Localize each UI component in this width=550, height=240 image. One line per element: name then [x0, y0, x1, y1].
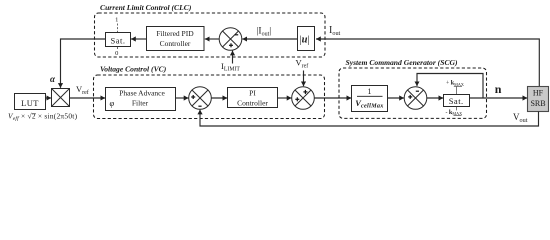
svg-text:ILIMIT: ILIMIT [221, 61, 240, 73]
wire: Vref input to VC summer 2 [303, 71, 305, 87]
svg-text:Filtered PID: Filtered PID [156, 29, 194, 38]
summing junction VC 2 [292, 87, 315, 110]
wire: Sat to HF SRB, net n [470, 97, 528, 99]
svg-text:Controller: Controller [160, 39, 191, 48]
dashed box: Voltage Control (VC) [94, 75, 325, 119]
wire: VC summer1 to PI Controller [211, 97, 227, 99]
svg-text:System Command Generator (SCG): System Command Generator (SCG) [346, 58, 458, 67]
wire: |u| to summer with label |Iout| [242, 38, 298, 40]
dashed box: System Command Generator (SCG) [339, 68, 487, 118]
svg-text:Current Limit Control (CLC): Current Limit Control (CLC) [100, 3, 192, 12]
wire: 1/VcellMax to SCG summer [388, 97, 405, 99]
svg-text:Veff × √2 × sin(2π50t): Veff × √2 × sin(2π50t) [8, 112, 78, 123]
svg-text:- kMAX: - kMAX [446, 109, 463, 116]
wire: SCG summer to Sat [427, 97, 444, 99]
wire: Phase Advance to VC summer 1 [176, 97, 189, 99]
svg-text:Voltage Control (VC): Voltage Control (VC) [100, 65, 167, 74]
wire: PID to Sat [131, 38, 146, 40]
block Sat (CLC saturation) [106, 33, 131, 47]
wire: PI to VC summer 2 [278, 97, 292, 99]
svg-text:0: 0 [115, 50, 118, 57]
wire: ILIMIT input to CLC summer [232, 51, 234, 64]
svg-text:n: n [495, 82, 502, 96]
svg-text:Phase Advance: Phase Advance [119, 89, 165, 98]
svg-text:|u|: |u| [299, 35, 309, 46]
multiplier (X box) [52, 89, 70, 107]
svg-text:SRB: SRB [530, 99, 545, 108]
svg-text:|Iout|: |Iout| [257, 27, 272, 38]
block: PI Controller [228, 88, 278, 108]
wire: anti-windup feedback loop to SCG summer [417, 74, 483, 99]
vinculum over sqrt 2 [32, 113, 36, 115]
svg-text:HF: HF [533, 89, 544, 98]
svg-text:Sat.: Sat. [111, 35, 126, 45]
wire: LUT to multiplier [46, 97, 52, 99]
block: Phase Advance Filter [106, 88, 176, 111]
block: Sat (SCG saturation) [444, 95, 470, 107]
svg-text:Vref: Vref [76, 84, 89, 96]
svg-text:Vout: Vout [513, 112, 528, 124]
svg-text:φ: φ [110, 98, 115, 108]
svg-text:1: 1 [368, 87, 372, 96]
wire: multiplier to Phase Advance Filter, net Vref [70, 97, 106, 99]
wire: Vout feedback from HF SRB bottom to VC summer1 [200, 110, 539, 126]
svg-text:Iout: Iout [329, 25, 341, 37]
svg-text:+ kMAX: + kMAX [446, 80, 464, 87]
svg-text:LUT: LUT [21, 98, 39, 108]
wire: Sat output to multiplier alpha input [61, 39, 106, 88]
svg-text:PI: PI [249, 89, 256, 98]
summing junction VC 1 [189, 87, 212, 110]
block: HF SRB plant [528, 87, 549, 112]
svg-text:Filter: Filter [132, 99, 149, 108]
svg-text:Sat.: Sat. [449, 96, 464, 106]
block: 1/VcellMax gain [352, 86, 388, 112]
wire: Iout feedback from HF SRB top to |u| [316, 39, 539, 86]
block: LUT [15, 94, 46, 110]
svg-text:Controller: Controller [237, 99, 268, 108]
block: Filtered PID Controller [147, 27, 205, 51]
dashed box: Current Limit Control (CLC) [95, 13, 326, 57]
wire: summer to PID [205, 38, 219, 40]
wire: VC summer2 to 1/VcellMax [314, 97, 351, 99]
summing junction SCG [404, 87, 427, 110]
summing junction CLC [219, 28, 242, 51]
svg-text:Vref: Vref [296, 58, 309, 70]
block: |u| absolute value [298, 27, 315, 51]
svg-text:α: α [50, 74, 56, 84]
svg-text:1: 1 [115, 16, 118, 23]
